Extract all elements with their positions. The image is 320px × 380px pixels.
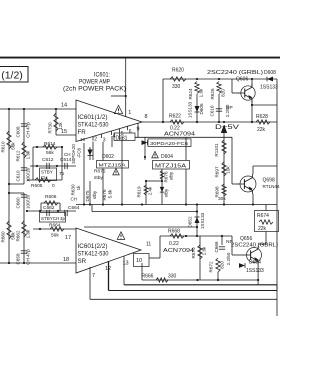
svg-text:R630: R630 — [71, 184, 76, 195]
svg-text:D608: D608 — [264, 70, 276, 76]
svg-text:STBY: STBY — [41, 170, 53, 175]
svg-text:D652: D652 — [188, 216, 193, 227]
svg-text:8: 8 — [145, 114, 148, 120]
svg-text:R662: R662 — [16, 230, 21, 241]
svg-text:330: 330 — [168, 274, 177, 280]
svg-text:R605: R605 — [31, 183, 43, 189]
svg-text:SR: SR — [78, 258, 87, 265]
svg-text:(2ch POWER PACK): (2ch POWER PACK) — [63, 86, 126, 93]
svg-text:C610: C610 — [16, 170, 21, 181]
svg-text:0: 0 — [52, 183, 55, 189]
svg-text:CH 47p: CH 47p — [26, 249, 31, 265]
svg-text:-FC6: -FC6 — [77, 147, 82, 158]
svg-text:12: 12 — [105, 266, 111, 272]
svg-text:STK412-530: STK412-530 — [78, 122, 109, 129]
svg-text:22k: 22k — [257, 127, 266, 133]
svg-text:C666: C666 — [214, 241, 219, 252]
svg-text:22k: 22k — [258, 226, 267, 232]
svg-text:16: 16 — [80, 137, 86, 142]
svg-text:10k: 10k — [226, 166, 231, 174]
svg-text:IC601:: IC601: — [94, 72, 110, 79]
svg-text:1k: 1k — [76, 185, 81, 191]
svg-text:5.6k: 5.6k — [108, 189, 113, 198]
svg-text:R610: R610 — [1, 141, 6, 152]
svg-text:7: 7 — [92, 273, 95, 279]
svg-text:ACN7094: ACN7094 — [163, 248, 194, 254]
svg-text:R1101: R1101 — [214, 143, 219, 157]
svg-text:D602: D602 — [102, 154, 114, 160]
svg-text:100/16: 100/16 — [26, 195, 31, 209]
svg-text:30PDA20-FC6: 30PDA20-FC6 — [150, 141, 188, 147]
svg-text:13: 13 — [123, 261, 129, 267]
svg-text:1.8k: 1.8k — [26, 229, 31, 238]
svg-text:IC601(2/2): IC601(2/2) — [78, 243, 108, 250]
svg-text:1SS133: 1SS133 — [246, 268, 264, 274]
svg-text:R619: R619 — [137, 186, 142, 197]
svg-text:R606: R606 — [45, 194, 57, 200]
svg-text:D781: D781 — [116, 135, 128, 141]
svg-text:stby: stby — [94, 175, 103, 181]
svg-text:2: 2 — [94, 137, 97, 143]
svg-text:56k: 56k — [46, 150, 54, 156]
svg-text:D654: D654 — [249, 260, 261, 266]
svg-text:2SC2240 (GRBL): 2SC2240 (GRBL) — [207, 70, 263, 76]
svg-text:stby: stby — [92, 190, 97, 199]
svg-text:STBYCH: STBYCH — [41, 216, 59, 221]
svg-text:R628: R628 — [256, 114, 268, 120]
svg-text:1.8k: 1.8k — [202, 246, 207, 255]
svg-text:330: 330 — [172, 84, 181, 90]
svg-text:RT1N441M: RT1N441M — [263, 184, 281, 189]
svg-text:POWER AMP: POWER AMP — [79, 79, 110, 86]
svg-text:IC601(1/2): IC601(1/2) — [78, 114, 108, 121]
svg-text:30k: 30k — [218, 196, 226, 202]
svg-text:C616: C616 — [210, 105, 215, 116]
svg-text:STK412-530: STK412-530 — [78, 251, 109, 258]
svg-text:R730: R730 — [48, 122, 53, 133]
svg-text:1.8k: 1.8k — [199, 88, 204, 97]
svg-text:C612: C612 — [42, 157, 54, 163]
svg-text:R675: R675 — [94, 169, 106, 175]
svg-text:820: 820 — [220, 261, 225, 269]
svg-text:11: 11 — [146, 242, 151, 248]
svg-text:C664: C664 — [68, 205, 80, 211]
svg-text:820: 820 — [221, 89, 226, 97]
svg-text:7p: 7p — [59, 171, 65, 177]
svg-text:1: 1 — [128, 110, 131, 116]
svg-text:3p: 3p — [60, 216, 66, 221]
svg-text:1SS133: 1SS133 — [260, 85, 278, 91]
svg-text:R626: R626 — [210, 88, 215, 99]
svg-text:R614: R614 — [44, 141, 56, 147]
svg-text:C658: C658 — [16, 253, 21, 264]
svg-text:R622: R622 — [169, 114, 181, 120]
svg-text:0.22: 0.22 — [169, 241, 179, 247]
svg-text:Q656: Q656 — [240, 236, 252, 242]
svg-text:10: 10 — [136, 258, 142, 264]
svg-text:Q606: Q606 — [236, 77, 248, 83]
svg-text:R672: R672 — [209, 261, 214, 272]
svg-text:CH: CH — [64, 152, 71, 157]
svg-text:FR: FR — [78, 129, 87, 136]
svg-text:stby: stby — [164, 188, 169, 197]
svg-text:56k: 56k — [11, 142, 16, 150]
svg-text:D+5V: D+5V — [215, 125, 239, 131]
svg-text:(1/2): (1/2) — [1, 70, 23, 82]
svg-text:MTZJ15A: MTZJ15A — [155, 164, 187, 170]
svg-text:CH 47p: CH 47p — [26, 122, 31, 138]
svg-text:R674: R674 — [257, 213, 269, 219]
svg-text:R697: R697 — [215, 166, 220, 177]
svg-text:2.2/50: 2.2/50 — [226, 252, 231, 265]
svg-text:30PDA20: 30PDA20 — [71, 144, 76, 164]
svg-text:12k: 12k — [58, 122, 63, 130]
svg-text:R698: R698 — [215, 186, 220, 197]
svg-text:stby: stby — [169, 171, 174, 180]
svg-text:56k: 56k — [51, 233, 59, 239]
svg-text:NP: NP — [226, 239, 233, 245]
svg-text:C660: C660 — [16, 197, 21, 208]
svg-text:1.8k: 1.8k — [26, 150, 31, 159]
svg-text:R670: R670 — [191, 247, 196, 258]
svg-text:R624: R624 — [188, 88, 193, 99]
svg-text:14: 14 — [61, 103, 67, 109]
svg-text:1SS133: 1SS133 — [200, 212, 205, 229]
svg-text:CH: CH — [71, 197, 78, 202]
svg-text:R666: R666 — [142, 274, 154, 280]
svg-text:R620: R620 — [172, 68, 184, 74]
svg-text:18: 18 — [63, 257, 69, 263]
svg-text:R660: R660 — [1, 231, 6, 242]
svg-text:D675: D675 — [85, 190, 90, 201]
svg-text:Q698: Q698 — [263, 178, 275, 184]
svg-text:17: 17 — [65, 235, 71, 241]
svg-text:R612: R612 — [16, 150, 21, 161]
svg-text:R668: R668 — [168, 229, 180, 235]
svg-text:ACN7094: ACN7094 — [164, 132, 195, 138]
svg-text:NP: NP — [226, 105, 233, 111]
svg-text:D604: D604 — [161, 154, 173, 160]
svg-text:D606: D606 — [199, 103, 204, 114]
svg-text:6: 6 — [129, 129, 132, 135]
svg-text:2.4k: 2.4k — [148, 186, 153, 195]
svg-text:C608: C608 — [16, 126, 21, 137]
svg-text:1SS133: 1SS133 — [188, 101, 193, 118]
